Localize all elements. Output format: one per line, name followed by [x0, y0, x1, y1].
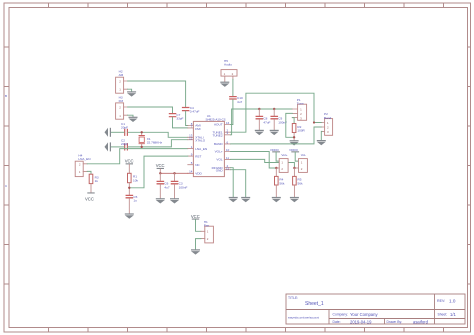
wire R2 to ground — [293, 133, 295, 141]
ground (H1 pin2) — [191, 249, 200, 254]
capacitor C6 4u7 — [157, 173, 170, 198]
wire C4 to AMI — [186, 111, 188, 125]
svg-text:2019-04-19: 2019-04-19 — [350, 319, 372, 324]
wire H5 pin2 to C10 — [232, 79, 234, 96]
svg-text:Tune: Tune — [297, 102, 304, 106]
resistor R4 56k — [275, 168, 285, 197]
power VDD (P4) — [289, 148, 299, 161]
junction VDD/C3 — [173, 172, 175, 174]
connector H5 Audio — [221, 59, 237, 82]
svg-text:LNA_EN: LNA_EN — [78, 157, 90, 161]
wire AM pin1 to ground — [128, 89, 132, 91]
connector P3 Vol+ — [276, 153, 288, 172]
wire C7 to FMI — [173, 117, 188, 128]
connector H2 AM — [116, 69, 128, 93]
svg-text:AOUT: AOUT — [214, 123, 223, 127]
svg-text:Pwr: Pwr — [204, 224, 209, 228]
svg-text:VCC: VCC — [156, 163, 165, 168]
wire P2 pin3 to ground — [320, 131, 323, 140]
svg-text:BAND: BAND — [214, 142, 223, 146]
svg-text:20pF: 20pF — [121, 126, 128, 130]
svg-text:AM: AM — [119, 73, 124, 77]
junction BAND/TUNE1 at P2 pin1 — [313, 121, 315, 123]
wire FM pin2 to C7 — [128, 107, 173, 113]
ground (RFGND) — [229, 197, 238, 202]
ground (R4) — [272, 197, 281, 202]
svg-text:32.768KHz: 32.768KHz — [147, 141, 163, 145]
junction X1 bottom — [141, 146, 143, 148]
svg-text:TITLE:: TITLE: — [288, 296, 298, 300]
ground (H2 pin1) — [127, 91, 136, 96]
wire C2 to XTALO — [128, 140, 188, 147]
svg-text:10: 10 — [226, 148, 230, 152]
junction R2/P1 pin2 — [293, 136, 295, 138]
svg-text:RST: RST — [195, 154, 201, 158]
svg-text:Sheet:: Sheet: — [438, 313, 448, 317]
junction TUNE2/C8 — [258, 108, 260, 110]
wire C1 left to ground — [111, 131, 124, 133]
connector H4 LNA_EN — [75, 153, 90, 176]
svg-text:15: 15 — [226, 166, 230, 170]
capacitor C10 4u7 — [230, 96, 243, 104]
svg-text:Sheet_1: Sheet_1 — [305, 301, 324, 307]
svg-text:VCC: VCC — [191, 214, 200, 219]
svg-text:Si4825-A10-CS: Si4825-A10-CS — [206, 117, 226, 121]
svg-text:1/1: 1/1 — [450, 312, 456, 317]
svg-text:100nF: 100nF — [179, 185, 188, 189]
svg-text:56k: 56k — [298, 181, 303, 185]
wire VOL net — [231, 159, 295, 168]
ground (GND) — [241, 197, 250, 202]
svg-text:12: 12 — [189, 136, 193, 140]
ground (C6) — [156, 198, 165, 203]
resistor R5 56k — [293, 168, 303, 197]
svg-text:GND: GND — [216, 169, 224, 173]
junction TUNE2/C9 — [273, 108, 275, 110]
svg-text:20pF: 20pF — [121, 142, 128, 146]
svg-text:asaiford: asaiford — [413, 319, 429, 324]
ground left (C2) — [105, 142, 112, 151]
resistor R1 10k — [128, 173, 139, 182]
ground (C5) — [125, 213, 134, 218]
svg-text:REV:: REV: — [437, 299, 445, 303]
svg-text:47uF: 47uF — [263, 120, 270, 124]
VCC symbol (VDD rail) — [156, 163, 165, 173]
wire H4 pin1 to R3 — [87, 171, 91, 174]
svg-text:14: 14 — [189, 170, 193, 174]
ground left (C1) — [105, 128, 112, 137]
resistor R2 100R — [292, 124, 305, 133]
svg-text:XTALO: XTALO — [195, 139, 206, 143]
wire TUNE2 net — [231, 109, 293, 135]
svg-text:NC: NC — [195, 163, 200, 167]
capacitor C4 0.47uF — [183, 106, 200, 114]
junction X1 top — [141, 131, 143, 133]
VCC symbol (R1) — [125, 159, 134, 174]
crystal X1 32.768KHz — [139, 132, 163, 147]
title block — [286, 294, 465, 324]
VCC tap (below R3) — [85, 192, 95, 201]
wire AM pin2 to C4 — [128, 81, 186, 107]
capacitor C3 100nF — [171, 173, 187, 198]
VCC symbol (H1) — [191, 214, 200, 220]
svg-text:33pF: 33pF — [176, 117, 183, 121]
svg-text:0.47uF: 0.47uF — [190, 110, 200, 114]
svg-text:FMI: FMI — [195, 127, 200, 131]
svg-text:TUNE2: TUNE2 — [212, 134, 222, 138]
svg-text:56k: 56k — [279, 181, 284, 185]
junction VOL/R5 — [293, 167, 295, 169]
capacitor C1 20pF — [121, 122, 128, 135]
capacitor C9 100nF — [271, 109, 287, 130]
connector P2 Band — [322, 112, 333, 135]
ground (H5 pin1) — [220, 82, 229, 87]
svg-text:Vol-: Vol- — [301, 153, 306, 157]
svg-text:1u: 1u — [133, 199, 137, 203]
wire C10 to AOUT — [231, 100, 233, 125]
connector H1 Pwr — [201, 220, 214, 243]
svg-text:easyeda.com/user/account: easyeda.com/user/account — [288, 316, 319, 320]
svg-text:Vol+: Vol+ — [281, 153, 287, 157]
ground (C9) — [270, 130, 279, 135]
svg-text:11: 11 — [226, 156, 229, 160]
wire C5 to ground — [128, 198, 130, 213]
svg-text:Drawn By:: Drawn By: — [387, 320, 403, 324]
svg-text:FM: FM — [119, 99, 124, 103]
wire P1 pin2 to R2 bottom — [286, 113, 294, 137]
wire TUNE1 net — [231, 93, 322, 132]
IC U1 Si4825-A10-CS — [188, 114, 231, 177]
svg-text:VCC: VCC — [85, 196, 94, 201]
wire H1 pin2 to ground — [196, 239, 201, 250]
power VDD (P3) — [270, 148, 280, 161]
wire GND to ground — [231, 170, 246, 197]
svg-text:VOL: VOL — [216, 158, 222, 162]
svg-text:VDD: VDD — [195, 172, 202, 176]
svg-text:LNA_EN: LNA_EN — [195, 147, 207, 151]
svg-text:B: B — [5, 94, 7, 98]
svg-text:1.0: 1.0 — [449, 298, 456, 303]
svg-text:Your Company: Your Company — [350, 312, 378, 317]
svg-text:Band: Band — [324, 116, 332, 120]
capacitor C8 47uF — [256, 109, 270, 130]
ground (C8) — [255, 130, 264, 135]
wire C1 to XTALI — [128, 132, 188, 137]
junction VDD/C6 — [159, 172, 161, 174]
connector H3 FM — [116, 95, 128, 119]
svg-text:4u7: 4u7 — [164, 185, 169, 189]
junction R1/C5/RST node — [128, 187, 130, 189]
svg-text:VOL+: VOL+ — [215, 150, 223, 154]
connector P1 Tune — [292, 98, 306, 120]
wire FM pin1 to ground — [128, 115, 133, 117]
junction VOL+/R4 — [275, 167, 277, 169]
wire H4 pin2 to LNA_EN — [87, 149, 188, 164]
ground (R5) — [290, 197, 299, 202]
wire R1 to C5 — [128, 183, 130, 195]
resistor R3 1k — [89, 174, 99, 183]
wire RST net from R1 node — [129, 156, 188, 188]
svg-text:10k: 10k — [133, 178, 138, 182]
wire P1 pin3 to R2 top — [292, 118, 294, 124]
wire C2 left to ground — [111, 146, 124, 148]
svg-text:Date:: Date: — [333, 320, 341, 324]
capacitor C2 20pF — [121, 139, 128, 150]
capacitor C7 33pF — [169, 113, 183, 121]
capacitor C5 1u — [126, 195, 137, 203]
svg-text:16: 16 — [226, 121, 230, 125]
VDD wire (pin14) — [160, 172, 188, 174]
ground (P2 pin3) — [317, 140, 326, 145]
wire VOL+ net — [231, 152, 277, 169]
ground (R2) — [290, 140, 299, 145]
svg-text:Company:: Company: — [333, 313, 349, 317]
wire RFGND to ground — [231, 168, 234, 197]
wire VCC to H1 pin1 — [196, 220, 201, 232]
wire BAND net — [231, 127, 322, 144]
svg-text:4u7: 4u7 — [237, 100, 242, 104]
svg-text:Audio: Audio — [224, 63, 232, 67]
connector P4 Vol- — [294, 153, 307, 172]
ground (H3 pin1) — [129, 117, 138, 122]
ground (C3) — [170, 198, 179, 203]
svg-text:VCC: VCC — [125, 159, 134, 164]
wire R3 to VCC tap — [90, 184, 92, 193]
svg-text:1k: 1k — [95, 179, 99, 183]
svg-text:100R: 100R — [297, 129, 305, 133]
